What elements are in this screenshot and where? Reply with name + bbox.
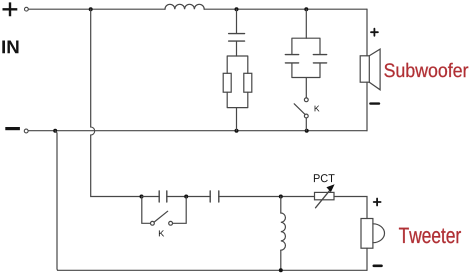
label Subwoofer <box>384 63 468 77</box>
wire bottom return rail <box>55 131 367 271</box>
wire C1 branch top <box>236 9 238 33</box>
PCT thermistor RT1 <box>315 184 335 208</box>
wire to C3 <box>142 196 160 198</box>
wire C2 bottom bar <box>292 63 320 97</box>
capacitor C1 <box>229 34 245 42</box>
node A (tweeter feed tap) <box>89 7 93 11</box>
wire bottom - rail <box>28 130 367 132</box>
wire top rail left <box>28 8 165 10</box>
wire hop over - rail (no connection) <box>91 127 95 135</box>
switch K (subwoofer branch) <box>294 98 308 131</box>
label + (subwoofer) <box>371 29 378 36</box>
wire tweeter feed drop (with hop) <box>90 9 92 127</box>
wire tweeter feed drop lower <box>91 135 142 197</box>
wire C3 to C4 <box>167 196 210 198</box>
node J (L2 return) <box>279 268 283 272</box>
wire C1 to resistors <box>236 41 238 56</box>
resistor R1 <box>223 73 231 92</box>
tweeter speaker LS2 <box>361 219 384 249</box>
wire C4 to PCT <box>219 196 315 198</box>
terminal circle + <box>25 7 29 11</box>
resistor R2 <box>244 73 252 92</box>
switch K (tweeter branch) <box>142 197 186 226</box>
node I (L2 tap) <box>279 195 283 199</box>
capacitor C2b <box>313 55 326 63</box>
subwoofer speaker LS1 <box>360 49 380 90</box>
capacitor C4 <box>210 191 219 202</box>
wire resistor bottom bar <box>227 92 248 131</box>
node C (C2 branch tap) <box>304 7 308 11</box>
node G (K1 left) <box>140 195 144 199</box>
label + (tweeter) <box>374 199 381 206</box>
node E (R return) <box>235 129 239 133</box>
wire C2 top bar <box>292 38 320 54</box>
wire subwoofer drop <box>366 9 368 56</box>
terminal circle - <box>24 129 28 133</box>
label Tweeter <box>399 228 461 244</box>
terminal - (IN negative) <box>5 127 20 130</box>
label K (subwoofer switch) <box>315 106 320 112</box>
label - (subwoofer) <box>370 102 379 104</box>
wire tweeter return riser <box>366 248 368 270</box>
inductor L1 <box>165 4 204 9</box>
label - (tweeter) <box>374 264 382 267</box>
wire subwoofer return <box>366 82 368 131</box>
wire C2 branch top <box>305 9 307 38</box>
inductor L2 (shunt) <box>281 197 286 271</box>
label IN <box>2 41 18 54</box>
capacitor C3 <box>159 191 167 202</box>
wire resistor top bar <box>227 56 248 73</box>
node B (C1 branch tap) <box>235 7 239 11</box>
wire PCT to tweeter <box>334 197 367 219</box>
label PCT <box>314 174 335 182</box>
capacitor C2a <box>285 55 298 63</box>
node F (K return) <box>305 129 309 133</box>
terminal + (IN positive) <box>3 2 18 16</box>
label K (tweeter switch) <box>159 230 164 236</box>
node H (K1 right) <box>184 195 188 199</box>
wire top rail right <box>204 8 367 10</box>
node D (left drop tap) <box>53 129 57 133</box>
